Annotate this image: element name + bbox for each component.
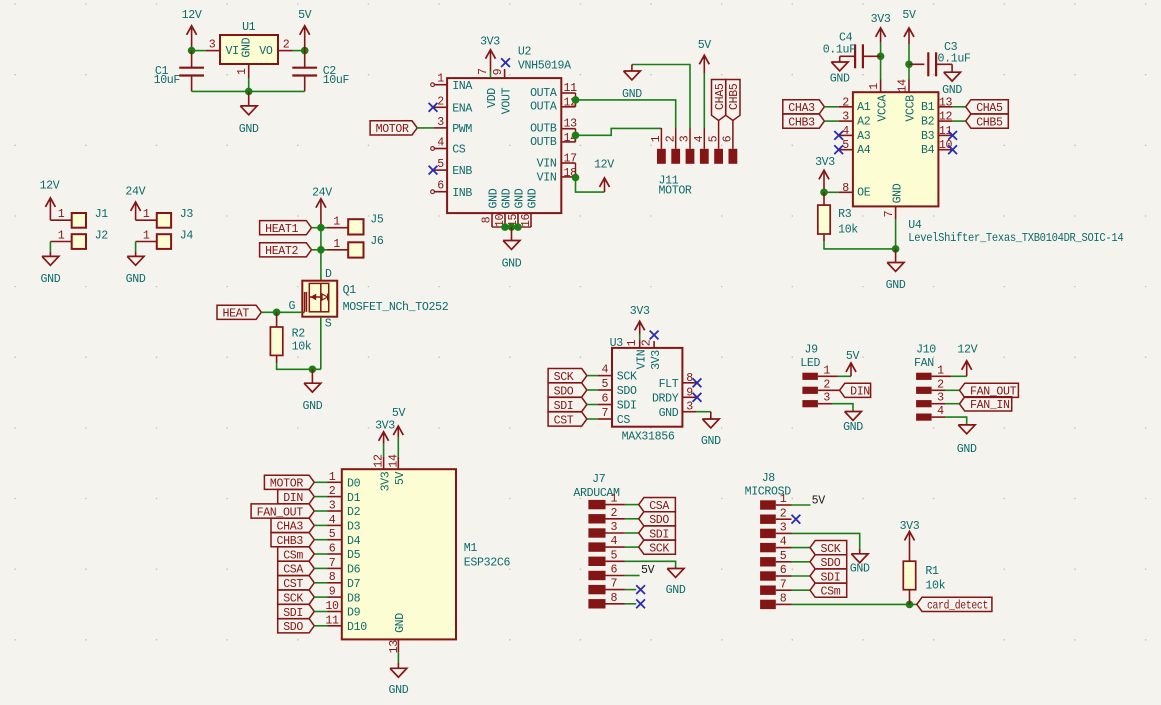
wire J8 pin 6 xyxy=(776,575,810,577)
svg-text:VCCB: VCCB xyxy=(905,95,918,122)
svg-text:DIN: DIN xyxy=(850,386,870,399)
pin 2 ENA xyxy=(434,95,473,115)
ground J7 xyxy=(666,567,686,597)
svg-text:J7: J7 xyxy=(592,473,606,486)
ground U4 xyxy=(886,249,906,292)
connector J7 pads xyxy=(573,473,625,608)
global label SDI (J7) xyxy=(639,526,676,541)
svg-text:1: 1 xyxy=(610,493,617,506)
svg-text:MOTOR: MOTOR xyxy=(270,478,303,491)
svg-text:SDO: SDO xyxy=(617,385,637,398)
pin 3 D2 of M1 xyxy=(328,500,361,520)
svg-text:1: 1 xyxy=(58,230,65,243)
global label SCK (J8) xyxy=(810,541,847,556)
connector J8 pads xyxy=(745,472,792,609)
svg-text:10k: 10k xyxy=(838,224,858,237)
pin 1 D0 of M1 xyxy=(328,471,361,491)
svg-text:FLT: FLT xyxy=(659,378,679,391)
global label HEAT2 xyxy=(260,243,312,258)
power symbol 5V (J9) xyxy=(846,350,860,377)
wire J7 pin 1 xyxy=(625,504,639,506)
svg-text:DIN: DIN xyxy=(283,492,303,505)
svg-text:5V: 5V xyxy=(812,494,826,507)
svg-text:R1: R1 xyxy=(925,565,939,578)
svg-text:10k: 10k xyxy=(292,341,312,354)
no-connect J7 pin 7 xyxy=(636,585,645,594)
svg-text:3V3: 3V3 xyxy=(650,350,663,370)
bracket pins 13-14 xyxy=(575,129,577,142)
svg-text:2: 2 xyxy=(437,95,444,108)
ground C3 xyxy=(942,64,962,97)
svg-text:D8: D8 xyxy=(347,592,361,605)
pins 8/10/15/16 GND of U2 xyxy=(481,188,540,227)
connector J2 xyxy=(50,229,108,249)
svg-text:CS: CS xyxy=(617,414,631,427)
svg-text:A3: A3 xyxy=(857,130,871,143)
ground J2 xyxy=(40,252,60,286)
wire SDI to U3 xyxy=(587,404,598,406)
svg-text:9: 9 xyxy=(329,586,336,599)
svg-text:GND: GND xyxy=(850,563,870,576)
svg-text:5: 5 xyxy=(601,378,608,391)
wire R3 to ground xyxy=(824,241,896,249)
bracket pins 11-12 xyxy=(575,93,577,107)
wire J4 to ground xyxy=(135,242,137,253)
svg-text:7: 7 xyxy=(329,557,336,570)
svg-text:3: 3 xyxy=(780,522,787,535)
svg-text:GND: GND xyxy=(659,407,679,420)
svg-text:CST: CST xyxy=(554,414,574,427)
power symbol 12V (J1) xyxy=(40,179,60,220)
svg-text:11: 11 xyxy=(564,82,578,95)
svg-text:GND: GND xyxy=(886,279,906,292)
wire J11 pin 3 to ground xyxy=(632,65,690,129)
svg-text:SDI: SDI xyxy=(554,400,574,413)
global label SDO (U3) xyxy=(548,383,587,398)
svg-text:3: 3 xyxy=(823,392,830,405)
power symbol 3V3 (M1) xyxy=(375,419,395,456)
resistor R3 xyxy=(818,192,859,241)
connector J11 pads xyxy=(650,121,737,198)
junction OUTB xyxy=(572,132,580,140)
svg-text:MOSFET_NCh_TO252: MOSFET_NCh_TO252 xyxy=(343,301,449,314)
capacitor C1 xyxy=(154,51,204,92)
wire HEAT to Q1 gate xyxy=(261,311,302,313)
svg-text:CSm: CSm xyxy=(283,549,303,562)
svg-text:10uF: 10uF xyxy=(323,74,350,87)
svg-text:12V: 12V xyxy=(594,159,614,172)
pin 3 J8 to ground xyxy=(776,533,860,549)
pin 1 INA xyxy=(431,73,473,93)
svg-text:U2: U2 xyxy=(518,46,532,59)
svg-text:G: G xyxy=(289,300,296,313)
global label DIN (J9) xyxy=(840,383,871,398)
svg-text:6: 6 xyxy=(610,564,617,577)
net label 5V (J7 pin6) xyxy=(641,564,655,577)
power symbol 12V (U1 input) xyxy=(182,9,202,51)
global label SDI (U3) xyxy=(548,397,587,412)
transistor Q1 xyxy=(289,268,449,330)
svg-text:J1: J1 xyxy=(95,208,109,221)
no-connect U2 pin 9 xyxy=(501,58,510,67)
svg-text:GND: GND xyxy=(488,188,501,208)
svg-text:SDO: SDO xyxy=(821,557,841,570)
svg-text:CS: CS xyxy=(452,144,466,157)
svg-text:CSm: CSm xyxy=(821,586,841,599)
no-connect U3 FLT xyxy=(693,378,702,387)
svg-text:MOTOR: MOTOR xyxy=(659,185,692,198)
svg-text:GND: GND xyxy=(126,273,146,286)
svg-text:CHB5: CHB5 xyxy=(728,83,741,110)
wire U1 pin 2 to 5V xyxy=(293,50,305,52)
svg-text:12V: 12V xyxy=(40,179,60,192)
pin 2 3V3 xyxy=(640,339,662,370)
power symbol 24V (J3) xyxy=(125,186,145,221)
svg-text:OUTA: OUTA xyxy=(530,101,557,114)
global label CHB3 (M1 D4) xyxy=(271,533,314,548)
pin 17 VIN xyxy=(537,153,577,171)
svg-text:12: 12 xyxy=(373,454,386,468)
svg-text:12V: 12V xyxy=(957,344,977,357)
pin 9 VOUT xyxy=(492,68,513,114)
svg-text:MAX31856: MAX31856 xyxy=(622,430,675,443)
svg-text:5V: 5V xyxy=(394,472,407,486)
svg-text:D7: D7 xyxy=(347,578,361,591)
svg-text:CHA3: CHA3 xyxy=(788,102,815,115)
pin 2 A1 xyxy=(839,96,871,114)
pin 13 OUTB xyxy=(530,118,577,136)
global label card_detect (J8) xyxy=(917,597,992,612)
svg-text:VNH5019A: VNH5019A xyxy=(518,59,571,72)
global label SDI (J8) xyxy=(810,569,847,584)
svg-text:CST: CST xyxy=(283,578,303,591)
no-connect J8 pin 2 xyxy=(792,515,801,524)
regulator U1 xyxy=(220,21,278,64)
wire FAN_OUT to M1 xyxy=(314,510,327,512)
no-connect U2 pin 5 xyxy=(429,166,438,175)
svg-text:3: 3 xyxy=(610,521,617,534)
pin 7 GND of U4 xyxy=(883,183,904,249)
pin 1 J10 to 12V xyxy=(932,375,967,377)
svg-text:5V: 5V xyxy=(846,350,860,363)
pin 1 J8 to 5V label xyxy=(776,504,811,506)
svg-text:A1: A1 xyxy=(857,101,871,114)
net label 5V (J8 pin1) xyxy=(812,494,826,507)
svg-text:2: 2 xyxy=(610,507,617,520)
svg-text:5V: 5V xyxy=(298,9,312,22)
svg-text:VCCA: VCCA xyxy=(876,95,889,122)
svg-text:J6: J6 xyxy=(370,235,384,248)
junction HEAT2/Q1 drain xyxy=(317,246,325,254)
svg-text:VIN: VIN xyxy=(537,172,557,185)
power symbol 3V3 (U2 VDD) xyxy=(480,35,500,78)
ic U2 body xyxy=(447,46,571,214)
svg-text:GND: GND xyxy=(622,88,642,101)
wire SDO to U3 xyxy=(587,389,598,391)
svg-text:GND: GND xyxy=(239,123,259,136)
svg-text:1: 1 xyxy=(780,493,787,506)
svg-text:DRDY: DRDY xyxy=(652,392,679,405)
global label SDO (J8) xyxy=(810,555,847,570)
svg-text:GND: GND xyxy=(40,273,60,286)
svg-text:5V: 5V xyxy=(698,39,712,52)
svg-text:16: 16 xyxy=(520,214,533,228)
wire CST to M1 xyxy=(314,582,327,584)
pin 4 J10 to ground xyxy=(932,417,967,425)
wire 3V3 to OE xyxy=(824,191,839,193)
junction VIN xyxy=(572,174,580,182)
no-connect U4 A4 xyxy=(834,145,843,154)
svg-text:CHA5: CHA5 xyxy=(976,102,1003,115)
svg-text:CSA: CSA xyxy=(283,564,303,577)
svg-text:D10: D10 xyxy=(347,621,367,634)
svg-text:J8: J8 xyxy=(762,472,776,485)
pin 12 3V3 of M1 xyxy=(373,454,393,491)
svg-text:INB: INB xyxy=(452,187,472,200)
svg-text:4: 4 xyxy=(610,535,617,548)
wire SCK to U3 xyxy=(587,375,598,377)
ic U3 body xyxy=(610,337,683,443)
global label CHB5 (U4 B2) xyxy=(966,114,1009,129)
svg-text:24V: 24V xyxy=(312,186,332,199)
wire OUTA to J11 pin 2 xyxy=(576,100,676,128)
pin 7 VDD xyxy=(477,68,499,108)
wire J7 pin 7 xyxy=(625,589,636,591)
svg-text:5V: 5V xyxy=(392,407,406,420)
wire SDO to M1 xyxy=(314,625,327,627)
pin 3 VI of U1 xyxy=(206,39,220,52)
ground J9 xyxy=(843,412,863,435)
svg-text:9: 9 xyxy=(686,386,693,399)
svg-text:SCK: SCK xyxy=(617,371,637,384)
wire R2 to ground bus xyxy=(277,363,321,369)
svg-text:1: 1 xyxy=(650,135,663,142)
power symbol 5V (U4 VCCB) xyxy=(902,9,916,80)
pin 6 INB xyxy=(431,180,473,200)
no-connect J7 pin 8 xyxy=(636,599,645,608)
wire CHA3 to A1 xyxy=(824,106,838,108)
svg-text:A4: A4 xyxy=(857,144,871,157)
svg-text:J2: J2 xyxy=(95,229,109,242)
pin 12 OUTA xyxy=(530,96,577,113)
module M1 body xyxy=(342,469,511,639)
global label FAN_OUT (M1 D2) xyxy=(251,504,314,519)
svg-text:VIN: VIN xyxy=(635,349,648,369)
svg-text:1: 1 xyxy=(58,208,65,221)
svg-text:HEAT1: HEAT1 xyxy=(265,223,298,236)
svg-text:B4: B4 xyxy=(921,144,935,157)
connector J1 xyxy=(50,208,108,228)
svg-text:VI: VI xyxy=(226,45,239,58)
global label CSA (M1 D6) xyxy=(278,561,315,576)
global label HEAT1 xyxy=(260,221,312,236)
svg-text:1: 1 xyxy=(823,364,830,377)
global label CHA5 (U4 B1) xyxy=(966,100,1009,115)
wire J8 pin 5 xyxy=(776,561,810,563)
svg-text:5: 5 xyxy=(610,549,617,562)
wire CST to U3 xyxy=(587,418,598,420)
power symbol 3V3 (R1) xyxy=(900,520,920,561)
ground J8 xyxy=(850,549,870,576)
svg-text:7: 7 xyxy=(780,578,787,591)
connector J10 pads xyxy=(914,344,944,421)
svg-text:GND: GND xyxy=(942,84,962,97)
power symbol 12V (J10) xyxy=(957,344,977,377)
svg-text:11: 11 xyxy=(939,125,953,138)
junction OE/R3 xyxy=(820,189,828,197)
svg-text:HEAT2: HEAT2 xyxy=(265,245,298,258)
global label MOTOR (U2 PWM) xyxy=(370,121,417,136)
svg-text:VDD: VDD xyxy=(486,88,499,108)
global label CHB5 (J11 pin6) xyxy=(726,80,741,121)
svg-text:FAN_OUT: FAN_OUT xyxy=(257,506,304,519)
svg-text:CHB5: CHB5 xyxy=(976,116,1003,129)
svg-text:J4: J4 xyxy=(180,229,194,242)
svg-text:VOUT: VOUT xyxy=(500,87,513,114)
svg-text:ENA: ENA xyxy=(452,102,472,115)
svg-text:14: 14 xyxy=(897,79,910,93)
svg-text:3: 3 xyxy=(937,392,944,405)
pin 3 A2 xyxy=(839,111,871,129)
svg-text:6: 6 xyxy=(437,180,444,193)
wire J8 pin 7 xyxy=(776,589,810,591)
svg-text:8: 8 xyxy=(329,571,336,584)
global label FAN_OUT (J10) xyxy=(960,383,1019,398)
global label CST (M1 D7) xyxy=(278,576,315,591)
svg-text:8: 8 xyxy=(842,182,849,195)
power symbol 3V3 (U3 VIN) xyxy=(630,305,650,339)
svg-text:4: 4 xyxy=(693,135,706,142)
junction card_detect/R1 xyxy=(906,601,914,609)
global label MOTOR (M1 D0) xyxy=(264,475,314,490)
svg-text:1: 1 xyxy=(937,364,944,377)
svg-text:4: 4 xyxy=(437,137,444,150)
global label SCK (M1 D8) xyxy=(278,590,315,605)
svg-text:2: 2 xyxy=(664,135,677,142)
svg-text:14: 14 xyxy=(387,454,400,468)
resistor R2 xyxy=(270,312,311,363)
svg-text:5V: 5V xyxy=(902,9,916,22)
svg-text:J10: J10 xyxy=(916,344,936,357)
ground U3 xyxy=(701,412,721,448)
global label SCK (J7) xyxy=(639,540,676,555)
svg-text:10: 10 xyxy=(939,139,953,152)
svg-text:3: 3 xyxy=(842,111,849,124)
junction source/ground xyxy=(309,366,317,374)
ground J10 xyxy=(957,425,977,456)
pin 1 VCCA xyxy=(868,80,889,122)
bracket pins 17-18 xyxy=(575,163,577,178)
svg-text:GND: GND xyxy=(957,443,977,456)
global label SDI (M1 D9) xyxy=(278,604,315,619)
svg-text:2: 2 xyxy=(937,378,944,391)
no-connect U3 pin 2 xyxy=(650,331,659,340)
ground J11 xyxy=(622,65,642,101)
wire Q1 source down xyxy=(320,317,322,370)
svg-text:D9: D9 xyxy=(347,607,361,620)
wire MOTOR to PWM xyxy=(417,127,434,129)
pin 1 VIN xyxy=(626,339,648,369)
svg-text:4: 4 xyxy=(601,364,608,377)
no-connect U3 DRDY xyxy=(693,393,702,402)
svg-text:MOTOR: MOTOR xyxy=(376,123,409,136)
svg-text:M1: M1 xyxy=(464,542,478,555)
pin 8 D7 of M1 xyxy=(328,571,361,591)
svg-text:SDI: SDI xyxy=(283,607,303,620)
svg-text:ENB: ENB xyxy=(452,165,472,178)
svg-text:3: 3 xyxy=(329,500,336,513)
svg-text:GND: GND xyxy=(501,188,514,208)
capacitor C2 xyxy=(292,51,349,92)
svg-text:11: 11 xyxy=(325,614,339,627)
pin 3 J9 to ground xyxy=(818,404,853,412)
svg-text:GND: GND xyxy=(502,258,522,271)
svg-text:PWM: PWM xyxy=(452,123,472,136)
svg-text:CHB3: CHB3 xyxy=(788,116,815,129)
svg-text:SCK: SCK xyxy=(283,592,303,605)
pin 11 B3 xyxy=(921,125,953,143)
pin 11 OUTA xyxy=(530,82,577,100)
capacitor C4 xyxy=(823,31,881,68)
svg-text:6: 6 xyxy=(601,393,608,406)
wire CSA to M1 xyxy=(314,567,327,569)
svg-text:R3: R3 xyxy=(838,208,852,221)
svg-text:U4: U4 xyxy=(908,219,922,232)
svg-text:Q1: Q1 xyxy=(343,284,357,297)
junction OUTA xyxy=(572,96,580,104)
power symbol 3V3 (U4 OE) xyxy=(815,156,835,192)
svg-text:SCK: SCK xyxy=(554,371,574,384)
svg-text:GND: GND xyxy=(701,435,721,448)
svg-text:LED: LED xyxy=(800,357,820,370)
svg-text:1: 1 xyxy=(329,471,336,484)
svg-text:GND: GND xyxy=(666,584,686,597)
svg-text:GND: GND xyxy=(302,400,322,413)
wire J7 pin 4 xyxy=(625,546,639,548)
svg-text:U1: U1 xyxy=(242,21,256,34)
power symbol 5V (M1) xyxy=(392,407,406,457)
wire 12V to U1 pin 3 xyxy=(192,50,206,52)
svg-text:5: 5 xyxy=(437,158,444,171)
svg-text:13: 13 xyxy=(388,640,401,654)
svg-text:3: 3 xyxy=(679,135,692,142)
svg-text:OUTB: OUTB xyxy=(530,136,557,149)
svg-text:GND: GND xyxy=(514,188,527,208)
svg-text:24V: 24V xyxy=(125,186,145,199)
svg-text:OUTB: OUTB xyxy=(530,123,557,136)
svg-text:SDO: SDO xyxy=(554,385,574,398)
pin 12 B2 xyxy=(921,111,953,129)
wire B2 to CHB5 xyxy=(953,120,966,122)
wire U3 GND xyxy=(697,411,711,413)
svg-text:3V3: 3V3 xyxy=(871,13,891,26)
svg-text:3: 3 xyxy=(437,116,444,129)
svg-text:R2: R2 xyxy=(292,328,306,341)
pin 2 J8 xyxy=(776,518,792,520)
pin 4 D3 of M1 xyxy=(328,514,361,534)
svg-text:LevelShifter_Texas_TXB0104DR_S: LevelShifter_Texas_TXB0104DR_SOIC-14 xyxy=(908,232,1123,245)
connector J3 xyxy=(136,208,194,228)
svg-text:4: 4 xyxy=(780,536,787,549)
svg-text:GND: GND xyxy=(527,188,540,208)
wire HEAT2 to J6 xyxy=(312,249,328,251)
svg-text:10k: 10k xyxy=(925,580,945,593)
resistor R1 xyxy=(903,561,945,604)
svg-text:12V: 12V xyxy=(182,9,202,22)
ground U2 xyxy=(502,227,522,270)
wire MOTOR to M1 xyxy=(314,481,327,483)
wire CHB3 to A2 xyxy=(824,120,838,122)
